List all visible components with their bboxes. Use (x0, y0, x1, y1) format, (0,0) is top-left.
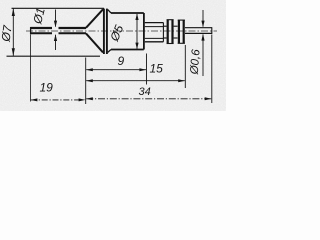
svg-text:9: 9 (118, 54, 125, 68)
svg-text:19: 19 (40, 81, 54, 95)
svg-text:34: 34 (139, 86, 151, 98)
svg-text:Ø7: Ø7 (0, 23, 15, 43)
svg-text:15: 15 (150, 62, 164, 76)
svg-text:Ø0,6: Ø0,6 (189, 48, 203, 75)
